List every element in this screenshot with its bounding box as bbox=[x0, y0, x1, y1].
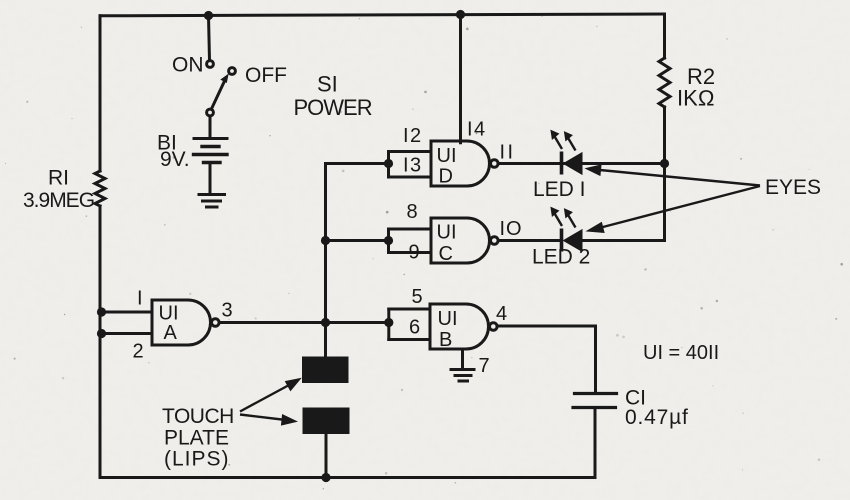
op-amp U1D output bubble bbox=[491, 160, 499, 168]
svg-text:D: D bbox=[439, 166, 453, 188]
svg-text:I3: I3 bbox=[403, 155, 423, 177]
svg-text:LED 2: LED 2 bbox=[532, 246, 590, 269]
op-amp U1A body (NAND gate) bbox=[152, 300, 211, 345]
wire U1B output pin 4 to C1 bbox=[497, 326, 595, 394]
LED1 triangle bbox=[564, 153, 583, 174]
wire U1B pin 7 to ground bbox=[461, 349, 464, 369]
wire U1C input pin 8 bbox=[389, 228, 432, 231]
wire U1B input pin 6 bbox=[389, 338, 430, 341]
LED2 triangle bbox=[564, 230, 583, 251]
wire U1C input tie bbox=[387, 229, 390, 253]
wire switch top lead bbox=[209, 16, 210, 61]
wire U1C input pin 9 bbox=[389, 251, 432, 254]
junction node U1A input 2 bbox=[97, 329, 106, 338]
svg-text:4: 4 bbox=[496, 303, 507, 325]
wire U1A input pin 1 bbox=[100, 311, 152, 314]
svg-text:IKΩ: IKΩ bbox=[677, 86, 715, 111]
switch S1 OFF contact bbox=[229, 68, 236, 75]
wire U1B input tie bbox=[387, 309, 390, 340]
resistor R1 bbox=[95, 171, 105, 206]
svg-text:OFF: OFF bbox=[245, 64, 287, 87]
svg-text:SI: SI bbox=[317, 72, 338, 97]
wire bus to U1D inputs bbox=[326, 162, 389, 165]
capacitor C1 bbox=[573, 394, 617, 408]
svg-text:IO: IO bbox=[500, 218, 523, 240]
svg-text:9V.: 9V. bbox=[160, 148, 190, 171]
svg-text:II: II bbox=[500, 142, 516, 164]
svg-text:UI: UI bbox=[437, 145, 457, 167]
junction node U1A input 1 bbox=[97, 307, 106, 316]
junction node U1B input tie bbox=[384, 318, 393, 327]
svg-text:UI = 40II: UI = 40II bbox=[643, 342, 719, 364]
LED1 emission arrow 1 bbox=[551, 131, 562, 150]
resistor R2 bbox=[659, 58, 670, 107]
wire U1A output to U1B inputs bbox=[219, 321, 388, 324]
LED1 (diode symbol) bbox=[551, 131, 582, 175]
wire U1C output to LED2 bbox=[498, 239, 561, 242]
svg-text:TOUCH: TOUCH bbox=[162, 405, 234, 428]
LED2 emission arrow 2 bbox=[565, 209, 576, 228]
svg-text:3: 3 bbox=[222, 300, 233, 322]
wire right vertical top (rail to R2) bbox=[663, 14, 666, 58]
svg-text:PLATE: PLATE bbox=[164, 427, 229, 450]
svg-text:7: 7 bbox=[479, 355, 490, 377]
junction node at switch top bbox=[204, 11, 213, 20]
svg-text:3.9MEG: 3.9MEG bbox=[23, 189, 94, 212]
LED2 cathode bar bbox=[560, 229, 564, 252]
junction node pin14 rail bbox=[456, 10, 465, 19]
svg-text:ON: ON bbox=[172, 54, 204, 77]
wire pin14 from top rail to U1D bbox=[459, 15, 462, 143]
battery B1 bbox=[194, 139, 228, 163]
svg-text:6: 6 bbox=[409, 317, 420, 339]
wire switch to battery bbox=[209, 116, 212, 139]
svg-text:C: C bbox=[439, 243, 453, 265]
touch plate lower pad bbox=[303, 408, 350, 435]
op-amp U1C output bubble bbox=[491, 237, 499, 245]
wire U1D input pin 13 bbox=[389, 176, 432, 179]
arrow EYES to LED2 bbox=[587, 186, 760, 233]
svg-text:(LIPS): (LIPS) bbox=[164, 448, 230, 471]
arrow EYES to LED1 bbox=[586, 165, 760, 186]
switch S1 ON contact bbox=[207, 61, 214, 68]
svg-text:UI: UI bbox=[438, 308, 458, 330]
junction node R2 / LED1 bbox=[660, 159, 669, 168]
op-amp U1B body (NAND gate) bbox=[430, 304, 489, 349]
svg-text:5: 5 bbox=[412, 286, 423, 308]
LED1 emission arrow 2 bbox=[565, 132, 576, 151]
junction node bus / U1A output bbox=[321, 318, 330, 327]
arrow TOUCH PLATE to lower pad bbox=[240, 415, 297, 426]
wire U1B input pin 5 bbox=[389, 308, 430, 311]
LED1 cathode bar bbox=[560, 152, 564, 175]
junction node U1D input tie bbox=[384, 159, 393, 168]
junction node U1C input tie bbox=[384, 236, 393, 245]
wire battery to ground bbox=[209, 163, 212, 195]
LED2 (diode symbol) bbox=[551, 208, 582, 252]
op-amp U1C body (NAND gate) bbox=[431, 218, 490, 263]
wire bottom rail bbox=[100, 476, 595, 479]
svg-text:0.47µf: 0.47µf bbox=[625, 406, 689, 429]
wire left vertical (top section above R1) bbox=[99, 16, 102, 171]
LED2 emission arrow 1 bbox=[551, 208, 562, 227]
wire U1A input pin 2 bbox=[100, 332, 152, 335]
svg-text:I: I bbox=[137, 288, 143, 310]
junction node bus / U1C wire bbox=[321, 236, 330, 245]
switch S1 arm arrowhead bbox=[220, 74, 228, 84]
wire U1D input tie bbox=[387, 152, 390, 178]
svg-text:2: 2 bbox=[133, 341, 144, 363]
svg-text:RI: RI bbox=[48, 167, 69, 190]
wire C1 to bottom rail bbox=[594, 408, 597, 478]
svg-text:A: A bbox=[164, 322, 178, 344]
junction node bus / bottom rail bbox=[321, 473, 330, 482]
wire LED junction down to LED2 bbox=[582, 164, 665, 241]
switch S1 arm bbox=[211, 80, 225, 109]
wire U1D output to LED1 anode bbox=[498, 162, 664, 165]
svg-text:I4: I4 bbox=[467, 119, 487, 141]
svg-text:LED I: LED I bbox=[533, 178, 586, 201]
ground (battery) bbox=[199, 195, 225, 208]
wire lower touch plate to bottom rail bbox=[325, 434, 328, 478]
touch plate upper pad bbox=[302, 357, 349, 384]
wire R2 to LED junction bbox=[663, 107, 666, 164]
switch S1 pole contact bbox=[207, 109, 214, 116]
svg-text:I2: I2 bbox=[403, 125, 423, 147]
wire left vertical (below R1) bbox=[99, 206, 102, 478]
ground (U1B pin 7) bbox=[451, 370, 474, 382]
arrow TOUCH PLATE to upper pad bbox=[240, 379, 301, 412]
svg-text:9: 9 bbox=[409, 242, 420, 264]
svg-text:8: 8 bbox=[407, 201, 418, 223]
wire bus to U1C inputs bbox=[326, 239, 389, 242]
op-amp U1B output bubble bbox=[490, 323, 498, 331]
svg-text:POWER: POWER bbox=[294, 95, 372, 120]
wire U1D input pin 12 bbox=[389, 150, 432, 153]
svg-text:UI: UI bbox=[437, 222, 457, 244]
svg-text:EYES: EYES bbox=[765, 176, 821, 199]
wire top rail bbox=[100, 14, 665, 16]
wire center bus vertical bbox=[324, 164, 327, 357]
op-amp U1A output bubble bbox=[212, 319, 220, 327]
op-amp U1D body (NAND gate) bbox=[431, 141, 489, 186]
svg-text:B: B bbox=[439, 329, 452, 351]
